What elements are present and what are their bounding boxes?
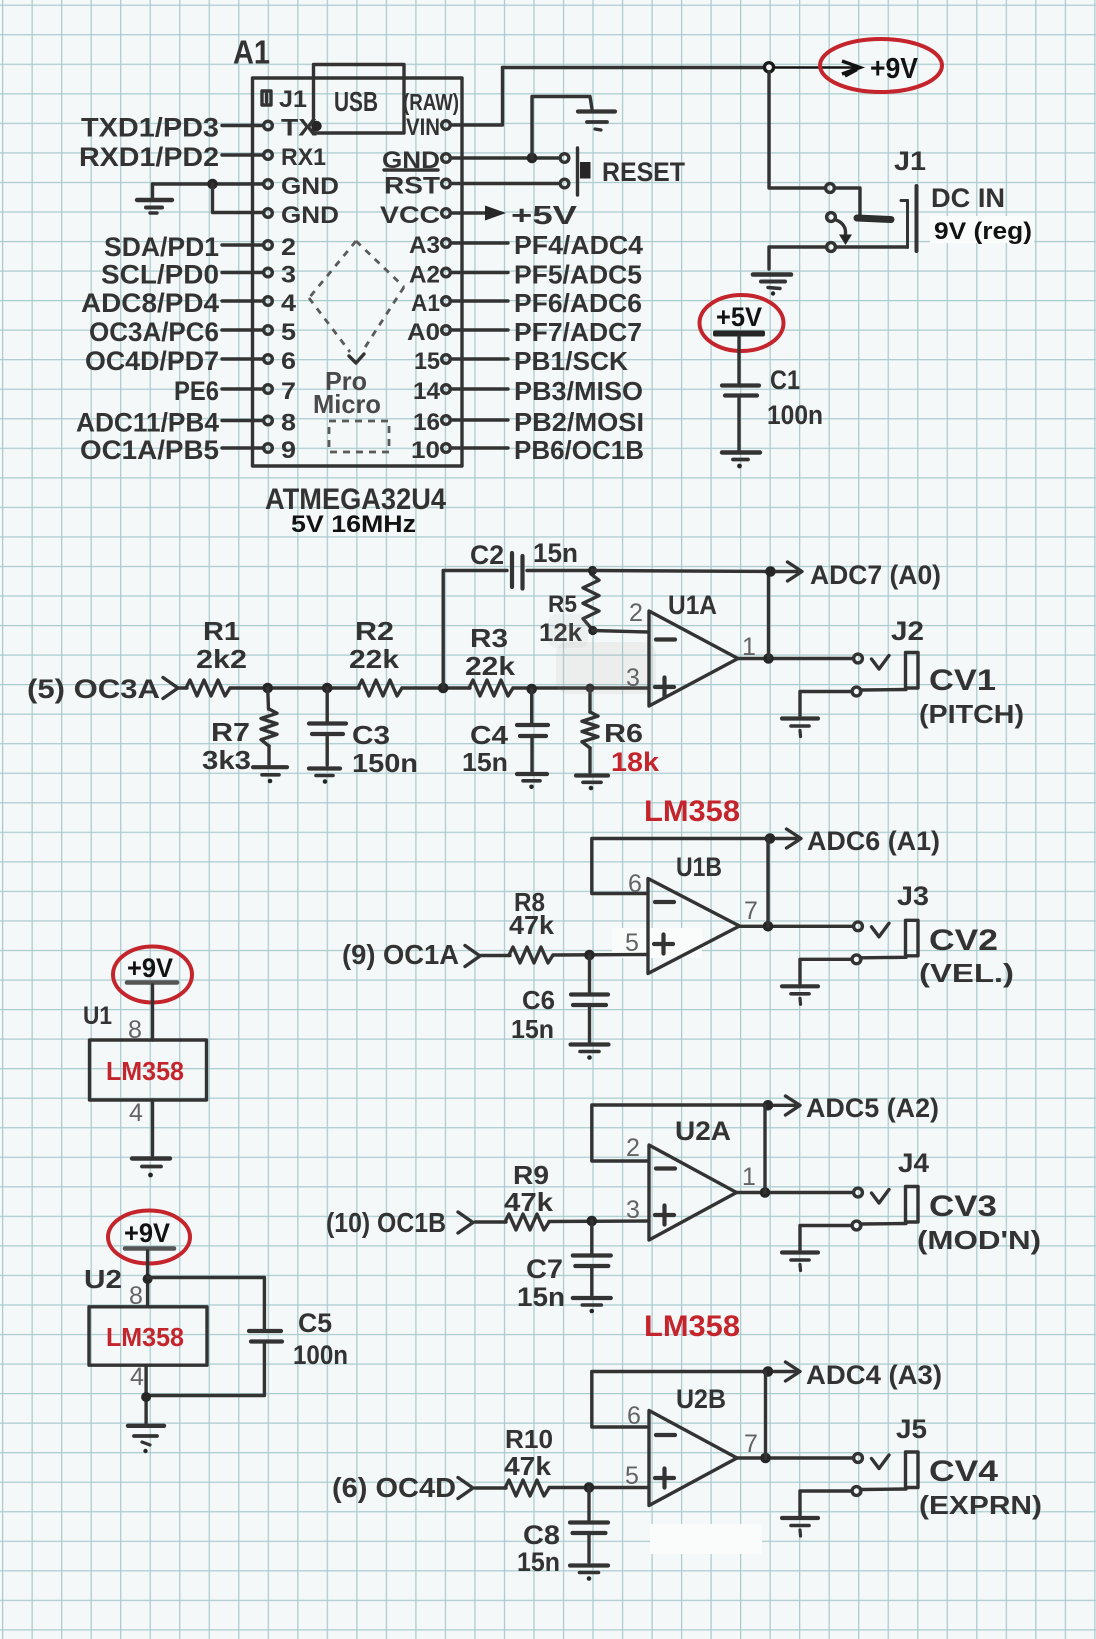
svg-text:(RAW): (RAW) <box>403 89 459 115</box>
svg-text:15n: 15n <box>462 747 508 777</box>
USB connector box <box>314 65 405 134</box>
svg-text:6: 6 <box>627 1402 641 1430</box>
junction ADC5 node <box>763 1100 774 1111</box>
wire U2 supply to C5 top <box>148 1278 265 1329</box>
wire J5 sleeve to ground <box>800 1491 852 1515</box>
+9V underline (U2) <box>125 1246 174 1251</box>
svg-text:15n: 15n <box>517 1282 565 1312</box>
svg-text:R7: R7 <box>211 717 250 747</box>
J3 body <box>906 920 919 956</box>
svg-text:4: 4 <box>130 1363 144 1391</box>
ground symbol C3 <box>309 769 340 784</box>
junction ADC4 node <box>763 1366 774 1377</box>
svg-text:+9V: +9V <box>124 1218 170 1248</box>
wire +5V to C1 <box>737 337 740 384</box>
connector icon J1 on-board <box>262 91 271 105</box>
svg-text:USB: USB <box>334 86 378 117</box>
wire C2 to feedback node <box>527 569 593 572</box>
svg-text:C1: C1 <box>770 365 800 395</box>
svg-text:(10) OC1B: (10) OC1B <box>326 1207 446 1238</box>
wire pin to PB3/MISO <box>452 387 508 390</box>
svg-text:A2: A2 <box>409 262 440 289</box>
wire U2 pin 4 down <box>144 1365 147 1423</box>
svg-text:6: 6 <box>628 870 642 898</box>
svg-text:U2A: U2A <box>675 1116 731 1146</box>
svg-text:15n: 15n <box>517 1547 560 1577</box>
Pro Micro dashed pad rectangle <box>329 421 389 452</box>
svg-text:ADC6 (A1): ADC6 (A1) <box>807 826 940 856</box>
svg-text:8: 8 <box>281 410 296 437</box>
svg-text:OC3A/PC6: OC3A/PC6 <box>89 317 219 347</box>
ground symbol J4 <box>782 1253 818 1271</box>
wire R3 to op-amp <box>513 686 648 689</box>
IC U1 body <box>90 1040 207 1100</box>
svg-text:16: 16 <box>413 409 440 436</box>
svg-text:7: 7 <box>744 897 758 925</box>
wire R2 to R3 <box>402 686 470 689</box>
svg-text:A1: A1 <box>411 290 440 317</box>
J2 tip check mark <box>872 656 890 670</box>
ground symbol U2 <box>128 1426 164 1453</box>
svg-text:2: 2 <box>281 234 296 261</box>
U1B minus symbol <box>655 900 674 904</box>
wire J4 sleeve to ground <box>800 1226 852 1250</box>
svg-text:U2B: U2B <box>676 1384 726 1414</box>
resistor R9 <box>505 1214 549 1230</box>
input chevron OC3A <box>163 678 178 699</box>
wire pin to PF4/ADC4 <box>452 241 508 244</box>
svg-text:RST: RST <box>384 173 440 200</box>
svg-text:ADC4 (A3): ADC4 (A3) <box>806 1360 942 1390</box>
svg-text:(5) OC3A: (5) OC3A <box>27 674 160 704</box>
resistor R5 <box>583 574 599 628</box>
svg-text:+9V: +9V <box>127 953 173 983</box>
capacitor C4 <box>530 689 533 723</box>
svg-text:OC1A/PB5: OC1A/PB5 <box>80 435 219 465</box>
svg-text:9V (reg): 9V (reg) <box>934 218 1032 245</box>
wire U2B output to feedback <box>764 1372 767 1459</box>
A1 left pin circles <box>264 121 273 452</box>
svg-text:3: 3 <box>626 664 640 692</box>
svg-text:J1: J1 <box>894 146 926 176</box>
svg-text:TXD1/PD3: TXD1/PD3 <box>81 113 219 143</box>
svg-text:A0: A0 <box>407 319 440 346</box>
svg-text:5: 5 <box>281 319 296 346</box>
svg-text:ADC8/PD4: ADC8/PD4 <box>81 288 219 318</box>
ground symbol C1 <box>722 453 760 469</box>
svg-text:PB3/MISO: PB3/MISO <box>514 376 643 406</box>
capacitor C1 <box>722 386 759 396</box>
wire PE6 to pin <box>222 387 263 390</box>
J5 body <box>906 1452 919 1488</box>
svg-text:Micro: Micro <box>313 389 381 419</box>
wire J5 sleeve to body <box>862 1487 907 1491</box>
resistor R6 <box>588 688 591 712</box>
wire pin to PB2/MOSI <box>452 418 508 421</box>
svg-text:15: 15 <box>414 348 440 375</box>
ground symbol U1 <box>132 1159 170 1178</box>
svg-text:100n: 100n <box>767 400 823 430</box>
ground symbol J5 <box>782 1518 818 1536</box>
capacitor C6 <box>588 955 591 993</box>
svg-text:15n: 15n <box>533 538 578 568</box>
wire ADC8/PD4 to pin <box>222 299 263 302</box>
junction U2 supply <box>143 1274 153 1284</box>
A1 right pin circles <box>442 121 451 453</box>
wire junction up to ground <box>532 97 589 159</box>
J4 body <box>906 1187 919 1223</box>
red ellipse around +5V <box>700 295 784 351</box>
wire TXD1/PD3 to pin <box>222 124 263 127</box>
wire U2B feedback <box>592 1372 768 1428</box>
svg-text:LM358: LM358 <box>644 1310 740 1343</box>
arrow to ADC5 <box>774 1096 800 1115</box>
junction ADC7 node <box>765 566 776 577</box>
svg-text:R1: R1 <box>203 616 240 646</box>
J1 switch arrow <box>836 220 846 236</box>
wire U2B output <box>736 1456 853 1459</box>
svg-text:J4: J4 <box>898 1148 929 1178</box>
svg-text:6: 6 <box>281 348 296 375</box>
svg-text:4: 4 <box>281 290 297 317</box>
junction C7 tap <box>587 1216 598 1227</box>
svg-text:RESET: RESET <box>602 157 685 187</box>
svg-text:U1B: U1B <box>676 852 722 882</box>
wire C1 to ground <box>737 398 740 451</box>
ground symbol R7 <box>253 767 287 783</box>
svg-text:C4: C4 <box>470 720 509 750</box>
svg-text:SCL/PD0: SCL/PD0 <box>101 260 219 290</box>
junction R6 tap <box>586 684 595 693</box>
svg-text:(9) OC1A: (9) OC1A <box>342 939 459 970</box>
svg-text:5V 16MHz: 5V 16MHz <box>291 511 416 538</box>
resistor R3 <box>469 680 513 696</box>
svg-text:PF6/ADC6: PF6/ADC6 <box>514 288 642 318</box>
USB pin dot <box>311 121 321 131</box>
svg-text:C6: C6 <box>522 985 555 1015</box>
wire U1A output <box>737 657 854 660</box>
wire +9V rail down to J1 tip <box>769 72 825 188</box>
svg-text:47k: 47k <box>509 910 555 940</box>
wire U2A feedback <box>592 1105 768 1161</box>
svg-text:LM358: LM358 <box>106 1322 184 1352</box>
ground symbol J2 <box>782 719 818 737</box>
ground symbol J3 <box>782 986 818 1004</box>
svg-text:U2: U2 <box>84 1264 122 1294</box>
svg-text:+9V: +9V <box>870 53 919 85</box>
junction C4 tap <box>526 684 537 695</box>
wire ADC11/PB4 to pin <box>222 419 263 422</box>
svg-text:VIN: VIN <box>406 114 440 141</box>
input chevron OC1A <box>465 946 480 967</box>
svg-text:CV2: CV2 <box>929 924 998 957</box>
svg-text:GND: GND <box>281 202 339 229</box>
RST overline <box>384 168 438 171</box>
svg-text:R3: R3 <box>470 623 508 653</box>
wire OC1A to R8 <box>481 954 510 957</box>
wire +9V to U1 pin 8 <box>151 985 154 1040</box>
J5 tip check mark <box>872 1455 890 1469</box>
svg-text:4: 4 <box>129 1099 143 1127</box>
resistor R10 <box>505 1480 549 1496</box>
svg-text:14: 14 <box>413 378 441 405</box>
wire VIN to +9V rail <box>453 68 503 126</box>
wire RST pin to reset switch <box>452 182 558 185</box>
connector J4 top contact <box>854 1188 863 1197</box>
wire U1B output <box>738 925 854 928</box>
svg-text:GND: GND <box>281 173 339 200</box>
junction reset gnd <box>527 153 538 164</box>
svg-text:PB6/OC1B: PB6/OC1B <box>514 435 644 465</box>
svg-text:U1: U1 <box>83 1002 112 1030</box>
resistor R1 <box>186 680 230 696</box>
svg-text:3: 3 <box>281 262 296 289</box>
red ellipse around +9V (U1) <box>113 947 192 1003</box>
wire pin to PB6/OC1B <box>452 446 508 449</box>
svg-text:22k: 22k <box>349 644 400 674</box>
junction U2A output <box>760 1187 771 1198</box>
J4 tip check mark <box>872 1190 890 1204</box>
junction U1A output <box>763 653 774 664</box>
wire U1 pin 4 to ground <box>151 1100 154 1155</box>
svg-text:PB2/MOSI: PB2/MOSI <box>514 407 644 437</box>
U1A minus symbol <box>656 637 675 641</box>
junction U1B output <box>763 921 774 932</box>
svg-text:R6: R6 <box>604 718 643 748</box>
wire SCL/PD0 to pin <box>222 271 263 274</box>
J2 body <box>906 653 919 689</box>
connector J1 DC jack <box>826 184 836 252</box>
svg-text:2: 2 <box>629 599 643 627</box>
svg-text:RXD1/PD2: RXD1/PD2 <box>79 142 219 172</box>
svg-text:C3: C3 <box>352 720 390 750</box>
wire OC1A/PB5 to pin <box>222 446 263 449</box>
A1 left pin names TX RX1 GND GND 2-9 <box>281 115 339 465</box>
svg-text:10: 10 <box>411 437 440 464</box>
wire pin to PF5/ADC5 <box>452 271 508 274</box>
J3 tip check mark <box>872 923 890 937</box>
connector J3 top contact <box>854 922 863 931</box>
U2B minus symbol <box>656 1433 675 1437</box>
wire R9 to U2A <box>549 1219 648 1223</box>
svg-text:1: 1 <box>742 1163 756 1191</box>
wire OC4D to R10 <box>475 1486 506 1489</box>
svg-text:A1: A1 <box>233 34 270 71</box>
svg-text:PE6: PE6 <box>174 376 219 406</box>
svg-text:22k: 22k <box>465 651 516 681</box>
node +9V junction <box>764 63 773 72</box>
svg-text:C8: C8 <box>523 1520 560 1550</box>
resistor R8 <box>509 947 553 963</box>
junction U2 ground <box>141 1392 151 1402</box>
resistor R7 <box>266 688 270 709</box>
ground symbol reset <box>578 97 615 131</box>
junction C6 tap <box>584 950 595 961</box>
ground symbol J1 <box>753 275 791 296</box>
svg-text:18k: 18k <box>611 747 660 777</box>
capacitor C3 <box>326 688 329 722</box>
capacitor C8 <box>587 1488 590 1521</box>
svg-text:+5V: +5V <box>716 302 762 332</box>
svg-text:47k: 47k <box>504 1187 554 1217</box>
wire +9V to U2 pin 8 <box>146 1251 149 1307</box>
connector J5 top contact <box>854 1454 863 1463</box>
svg-text:VCC: VCC <box>380 202 440 229</box>
wire pin to PF7/ADC7 <box>452 328 508 331</box>
svg-text:2k2: 2k2 <box>196 644 247 674</box>
wire U1B feedback <box>592 839 770 894</box>
wire J2 sleeve to ground <box>800 692 852 716</box>
capacitor C2 <box>512 553 523 589</box>
svg-text:J1: J1 <box>279 86 307 113</box>
resistor R2 <box>358 680 402 696</box>
wire J3 sleeve to body <box>862 956 907 960</box>
svg-text:(MOD'N): (MOD'N) <box>917 1225 1041 1255</box>
svg-text:47k: 47k <box>504 1451 552 1481</box>
wire RXD1/PD2 to pin <box>222 153 263 156</box>
wire R10 to U2B <box>549 1486 648 1489</box>
svg-text:LM358: LM358 <box>644 795 740 828</box>
junction R5 bottom <box>588 626 597 635</box>
svg-text:2: 2 <box>626 1134 640 1162</box>
red ellipse around +9V (U2) <box>108 1211 190 1264</box>
svg-text:R2: R2 <box>355 616 394 646</box>
U2A minus symbol <box>656 1166 675 1170</box>
op-amp U2B <box>649 1411 737 1506</box>
U1A plus symbol <box>655 678 674 697</box>
input chevron OC1B <box>458 1212 473 1233</box>
wire +9V rail horizontal <box>503 66 765 69</box>
svg-text:J3: J3 <box>897 881 929 911</box>
wire OC3A to R1 <box>179 686 187 689</box>
junction U2B output <box>760 1453 771 1464</box>
svg-text:PF4/ADC4: PF4/ADC4 <box>514 230 644 260</box>
svg-text:J5: J5 <box>896 1414 927 1444</box>
ground symbol C4 <box>517 774 547 789</box>
capacitor C7 <box>590 1221 593 1254</box>
wire C5 bottom to U2 pin 4 <box>146 1344 264 1396</box>
junction ADC6 node <box>765 833 776 844</box>
IC A1 Pro Micro body <box>253 78 463 466</box>
svg-text:150n: 150n <box>352 748 418 778</box>
svg-text:TX: TX <box>281 115 317 142</box>
svg-text:C2: C2 <box>470 540 504 570</box>
svg-text:R5: R5 <box>548 591 577 618</box>
svg-text:(PITCH): (PITCH) <box>919 699 1024 729</box>
Pro Micro dashed diamond outline <box>309 241 404 352</box>
svg-text:A3: A3 <box>409 232 440 259</box>
svg-text:C5: C5 <box>298 1308 332 1338</box>
wire U2A output <box>735 1191 852 1194</box>
svg-text:9: 9 <box>281 437 296 464</box>
junction C2 riser <box>438 683 449 694</box>
svg-text:R9: R9 <box>513 1160 549 1190</box>
+9V underline (U1) <box>127 980 177 985</box>
svg-text:ADC7 (A0): ADC7 (A0) <box>810 560 941 590</box>
wire feedback to ADC7 node <box>593 571 771 572</box>
svg-text:CV3: CV3 <box>929 1190 997 1223</box>
svg-text:15n: 15n <box>511 1014 554 1044</box>
ground symbol R6 <box>576 776 608 791</box>
wire J2 sleeve to body <box>862 688 907 692</box>
wire SDA/PD1 to pin <box>222 243 263 246</box>
wire R5 to inverting input <box>593 631 648 633</box>
svg-text:100n: 100n <box>293 1340 348 1370</box>
ground symbol A1 GND <box>137 184 172 213</box>
junction R5 top <box>588 566 597 575</box>
input chevron OC4D <box>458 1478 473 1499</box>
svg-text:+5V: +5V <box>511 200 578 230</box>
wire riser to C2 <box>443 571 507 689</box>
svg-text:C7: C7 <box>526 1254 563 1284</box>
wire GND pin row3 to junction <box>153 182 264 185</box>
wire pin to PB1/SCK <box>452 357 508 360</box>
svg-text:3k3: 3k3 <box>202 745 251 775</box>
arrow to ADC4 <box>774 1362 800 1381</box>
J4 sleeve contact <box>852 1221 861 1230</box>
wire OC4D/PD7 to pin <box>222 357 263 360</box>
wire U2A output to feedback <box>763 1105 766 1192</box>
+5V underline bar <box>713 331 765 337</box>
svg-text:ADC11/PB4: ADC11/PB4 <box>76 408 219 438</box>
svg-text:SDA/PD1: SDA/PD1 <box>104 232 219 262</box>
wire OC1B to R9 <box>475 1220 506 1223</box>
wire R1 to R2 <box>230 686 359 689</box>
svg-text:5: 5 <box>625 929 639 957</box>
svg-text:ADC5 (A2): ADC5 (A2) <box>806 1093 939 1123</box>
svg-text:J2: J2 <box>891 616 924 646</box>
svg-text:RX1: RX1 <box>281 144 326 171</box>
svg-text:R10: R10 <box>505 1424 553 1454</box>
J2 sleeve contact <box>852 687 861 696</box>
svg-text:(EXPRN): (EXPRN) <box>919 1490 1042 1520</box>
svg-text:(VEL.): (VEL.) <box>919 958 1014 988</box>
junction GND net <box>207 179 218 190</box>
U2A plus symbol <box>655 1206 674 1225</box>
svg-text:OC4D/PD7: OC4D/PD7 <box>85 346 219 376</box>
junction R7 tap <box>262 683 273 694</box>
svg-text:U1A: U1A <box>668 590 717 620</box>
wire R8 to U1B <box>553 953 647 957</box>
junction C3 tap <box>322 683 333 694</box>
wire J3 sleeve to ground <box>800 959 852 983</box>
red ellipse around +9V <box>820 39 942 92</box>
capacitor C5 <box>249 1331 282 1342</box>
A1 right pin names VIN GND RST VCC A3-A0 15 14 16 10 <box>380 114 441 464</box>
J1 tip contact <box>835 188 861 214</box>
svg-text:DC IN: DC IN <box>931 183 1005 213</box>
junction C8 tap <box>584 1482 595 1493</box>
U1B plus symbol <box>654 935 673 954</box>
wire pin to PF6/ADC6 <box>452 299 508 302</box>
+9V arrow (annotation) <box>775 61 860 76</box>
svg-text:PB1/SCK: PB1/SCK <box>514 346 628 376</box>
svg-text:7: 7 <box>281 378 296 405</box>
J1 body bars <box>901 186 917 251</box>
wire J1 sleeve to ground <box>769 247 906 269</box>
op-amp U1A <box>649 611 738 706</box>
svg-text:CV4: CV4 <box>929 1455 998 1488</box>
op-amp U1B <box>648 879 740 974</box>
wire J4 sleeve to body <box>862 1222 907 1226</box>
reset switch SW1 <box>560 148 577 195</box>
svg-text:PF7/ADC7: PF7/ADC7 <box>514 317 642 347</box>
wire output to feedback <box>767 572 770 659</box>
arrow to ADC7 <box>776 562 802 581</box>
svg-text:LM358: LM358 <box>106 1056 184 1086</box>
svg-text:(6) OC4D: (6) OC4D <box>332 1472 456 1503</box>
wire junction down to GND row4 <box>213 184 264 213</box>
